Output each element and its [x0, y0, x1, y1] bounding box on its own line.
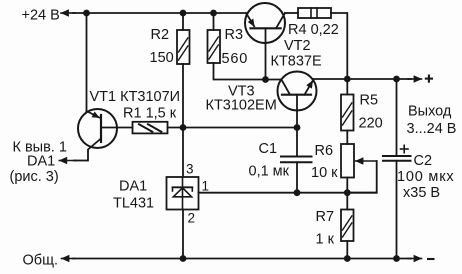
svg-text:Выход: Выход — [408, 104, 452, 120]
wire R3 bottom to VT2 base node — [214, 63, 282, 80]
node junction R6/R7/DA1 ref — [344, 189, 351, 196]
node junction bottom rail / C2 — [393, 255, 400, 262]
wire top +24V rail — [73, 12, 246, 14]
wire DA1 pin1 lead to divider — [199, 192, 377, 194]
svg-text:R2: R2 — [151, 27, 170, 43]
svg-text:DA1: DA1 — [119, 179, 147, 195]
node junction N1 R1/R2/DA1 — [180, 124, 187, 131]
wire R4 to output rail — [331, 13, 347, 79]
svg-text:C1: C1 — [259, 141, 278, 157]
wire R6 wiper return — [347, 161, 376, 193]
arrow to DA1 pin 1 (points left) — [59, 160, 76, 162]
wire C2 bottom lead — [396, 161, 398, 259]
node junction top rail / R3 — [210, 10, 217, 17]
resistor R5 body — [341, 95, 354, 131]
wire DA1 pin2 lead — [182, 210, 184, 259]
wire bottom common rail — [73, 258, 411, 260]
arrow common rail left (points left) — [62, 258, 76, 260]
svg-text:(рис. 3): (рис. 3) — [10, 169, 59, 185]
arrow +24V input (points left) — [61, 12, 75, 14]
node junction bottom rail / R7 — [344, 255, 351, 262]
capacitor C2 plates — [383, 155, 411, 157]
svg-text:КТ3102ЕМ: КТ3102ЕМ — [206, 98, 277, 114]
svg-text:R6: R6 — [315, 143, 334, 159]
svg-text:TL431: TL431 — [113, 196, 154, 212]
wire VT1 collector to DA1 pin1 note — [74, 160, 88, 162]
svg-text:VT1 КТ3107И: VT1 КТ3107И — [90, 89, 181, 105]
svg-text:R1 1,5 к: R1 1,5 к — [123, 106, 177, 122]
transistor VT1 circle — [78, 109, 117, 148]
svg-text:Общ.: Общ. — [23, 253, 59, 269]
wire DA1 pin3 lead — [182, 128, 184, 178]
svg-text:0,1 мк: 0,1 мк — [249, 164, 290, 180]
wire VT3 emitter to output rail — [313, 78, 411, 80]
svg-text:1 к: 1 к — [316, 232, 335, 248]
wire VT2 collector to R4 — [285, 12, 298, 14]
svg-text:3...24 В: 3...24 В — [407, 121, 457, 137]
svg-text:560: 560 — [222, 51, 249, 67]
wire VT3 base drop — [296, 95, 298, 128]
svg-text:10 к: 10 к — [311, 165, 338, 181]
node junction top rail / VT1 emitter — [83, 10, 90, 17]
transistor VT1 base bar — [100, 115, 102, 142]
wire node N1 to VT3 base — [183, 127, 297, 129]
resistor R3 body — [208, 30, 221, 63]
node junction pin1 wire / C1 — [294, 189, 301, 196]
resistor R2 body — [177, 30, 190, 64]
IC DA1 TL431 box — [167, 177, 199, 210]
resistor R5 top lead — [346, 79, 348, 95]
svg-text:C2: C2 — [414, 153, 433, 169]
wire VT2 base drop — [265, 28, 267, 79]
wire R7 bottom lead — [346, 241, 348, 259]
plus sign output — [425, 75, 433, 83]
svg-text:1: 1 — [202, 179, 210, 194]
resistor R1 body — [133, 122, 168, 134]
transistor VT2 emitter arrow — [246, 13, 254, 26]
node junction output rail / R4,R5 — [344, 76, 351, 83]
node junction output rail / C2 — [393, 76, 400, 83]
transistor VT3 emitter arrow — [305, 81, 313, 95]
wire VT1 base to R1 — [101, 127, 133, 129]
node junction top rail / R2 — [180, 10, 187, 17]
minus sign output — [427, 258, 435, 260]
resistor R6 wiper arrow — [356, 160, 377, 162]
transistor VT3 base bar — [282, 94, 311, 96]
svg-text:VT2: VT2 — [284, 38, 311, 54]
svg-text:R4 0,22: R4 0,22 — [288, 22, 339, 38]
capacitor C1 plates — [281, 156, 312, 158]
svg-text:х35 В: х35 В — [403, 185, 440, 201]
svg-text:2: 2 — [188, 211, 196, 226]
capacitor C2 polarity plus — [401, 145, 409, 152]
node junction bottom rail / DA1 pin2 — [180, 255, 187, 262]
transistor VT3 circle — [278, 72, 317, 111]
transistor VT1 emitter arrow — [87, 111, 100, 118]
transistor VT2 circle — [245, 3, 285, 43]
node junction VT3 base / C1 — [294, 124, 301, 131]
node junction VT2 base / R3 / VT3 collector — [262, 76, 269, 83]
transistor VT2 collector lead — [276, 13, 285, 28]
svg-text:+24 В: +24 В — [22, 7, 60, 23]
wire R1 to node N1 — [168, 127, 184, 129]
svg-text:R5: R5 — [360, 93, 379, 109]
arrow common rail right minus (points right) — [408, 258, 422, 260]
wire C1 bottom lead — [296, 162, 298, 192]
wire VT1 emitter drop — [86, 13, 88, 112]
wire C2 top lead — [396, 79, 398, 156]
svg-text:DA1: DA1 — [27, 154, 55, 170]
transistor VT2 base bar — [251, 27, 281, 29]
resistor R7 top lead — [346, 193, 348, 210]
resistor R2 top lead — [182, 13, 184, 30]
IC DA1 internal zener symbol — [182, 177, 184, 210]
resistor R3 top lead — [213, 13, 215, 30]
svg-text:220: 220 — [359, 116, 383, 132]
transistor VT3 collector lead — [282, 80, 291, 95]
wire R5 to R6 — [346, 131, 348, 145]
transistor VT1 collector lead — [88, 139, 101, 161]
arrow output plus (points right) — [408, 78, 422, 80]
resistor R6 potentiometer body — [341, 144, 354, 178]
svg-text:150: 150 — [150, 50, 174, 66]
wire R6 bottom lead — [346, 178, 348, 193]
svg-text:КТ837Е: КТ837Е — [271, 54, 322, 70]
wire R2 bottom to node N1 — [182, 64, 184, 128]
resistor R7 body — [341, 210, 354, 242]
svg-text:100 мкх: 100 мкх — [397, 169, 454, 185]
svg-text:R3: R3 — [225, 27, 244, 43]
wire C1 top lead — [296, 128, 298, 157]
svg-text:3: 3 — [186, 162, 194, 177]
svg-text:R7: R7 — [316, 209, 335, 225]
resistor R4 body — [298, 8, 331, 18]
